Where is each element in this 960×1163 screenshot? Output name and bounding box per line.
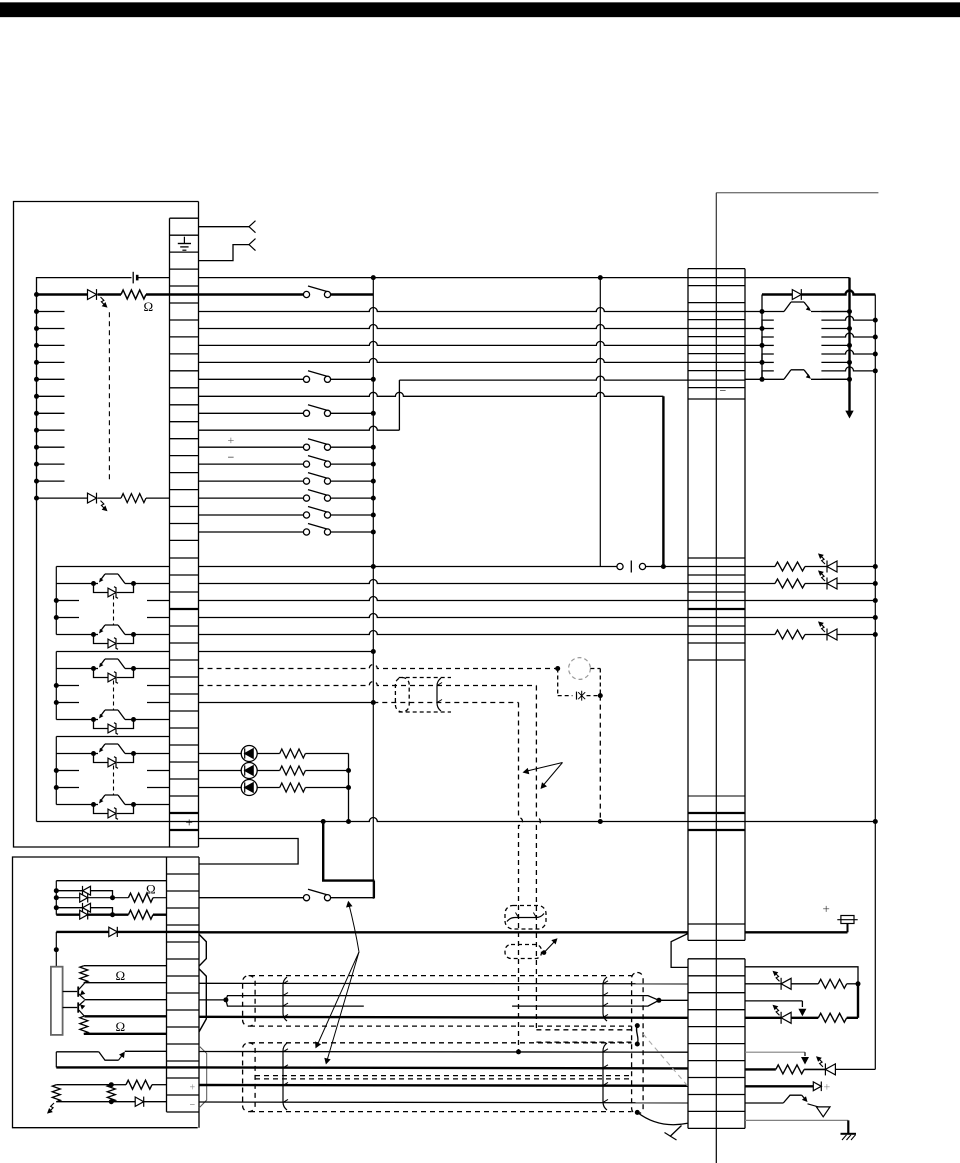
node LED rail 770 [346, 768, 351, 773]
connector CN-A cells [170, 217, 199, 219]
wire: forward diode row 914 [56, 914, 79, 916]
photo resistor LDR1 [52, 1085, 60, 1102]
wire: row 787 strip to LED [199, 787, 242, 789]
key switch SW10 [303, 895, 309, 901]
transistor Q1 (array) [762, 311, 784, 313]
transistor Q10 [94, 583, 99, 585]
wire: array collector row k5 right [821, 311, 849, 313]
wire: block1 mid1 stubs [56, 600, 79, 602]
cable envelope E1 [243, 976, 256, 1027]
cable envelope E3 bottom [250, 1111, 632, 1113]
zener Q14 branch [94, 754, 109, 763]
dashed drop V518 [519, 703, 523, 1052]
shield dashed diagonal [643, 1034, 688, 1086]
wire: row 617 strip to right connector [199, 614, 689, 618]
wire: diode to resistor 914 [88, 914, 129, 916]
wire: array top thick with diode left [762, 293, 792, 295]
wire: diode to resistor [98, 293, 122, 295]
node Q13 right [131, 717, 136, 722]
lamp L1 [576, 692, 578, 700]
wire: row k12 strip to V399 [199, 426, 400, 430]
node Q12 right [131, 666, 136, 671]
wire: block3 top row [56, 736, 169, 738]
wire: resistor to rail [305, 770, 348, 772]
bus: box2 rail 931-966 [55, 932, 57, 967]
switch SW5 [303, 461, 309, 467]
wire: SW7 to bus node [331, 497, 374, 499]
connector CN-C cells [167, 856, 200, 858]
wire: pushbutton to V663 node [646, 566, 688, 568]
wire: array offset row right k7 [821, 350, 875, 354]
wire: Q12 to strip [134, 668, 170, 670]
cable squiggle E1 right [603, 977, 607, 1021]
wire: array collector row k9 right [821, 378, 849, 380]
dashed opto link block3 [113, 766, 115, 795]
wire: reverse diode row 890 [56, 890, 82, 892]
zener Q15 branch [94, 805, 109, 814]
arrow: emitter rail to ground [845, 411, 853, 419]
wire: row 617 to right rail [745, 617, 875, 619]
wire: row k3 strip to right connector [199, 277, 689, 279]
wire: Q11 to strip [134, 634, 170, 636]
wire: array row k6 stub [762, 328, 774, 330]
wire: row k16 strip to switch [199, 497, 304, 499]
wire: row 1067 thick [56, 1066, 166, 1068]
resistor R11 (vertical) [80, 966, 88, 983]
switch SW3 [303, 410, 309, 416]
wire: Q13 bus to emitter [56, 719, 93, 721]
node collector k7 [847, 343, 852, 348]
arrow: plug link 2 [801, 1057, 809, 1065]
node Q15 left [91, 802, 96, 807]
wire: row k7 strip to right connector [199, 341, 689, 345]
resistor R9 [128, 893, 153, 902]
wire: D15 to R15 [791, 1017, 818, 1019]
connector CN-R1 cells [688, 268, 745, 270]
wire: SW4 to bus node [331, 446, 374, 448]
wire: row 753 strip to LED [199, 753, 242, 755]
wire: row 1103 C to D [199, 1101, 688, 1104]
wire: row 600 strip to right connector [199, 597, 689, 601]
wire: array collector row k6 right [821, 328, 849, 330]
resistor R5 [745, 634, 775, 636]
resistor R2 [121, 494, 146, 503]
wire: row k17 strip to switch [199, 514, 304, 516]
diode D11 [80, 910, 88, 919]
transistor Q14 [94, 753, 99, 755]
wire: block3 mid2 stubs [56, 787, 79, 789]
shield arrow (cable pair) [542, 950, 547, 955]
wire: R14 to node [847, 983, 858, 985]
resistor R14 [818, 979, 846, 988]
diode D12 [109, 927, 118, 936]
wire: row k6 through right strip [688, 328, 745, 330]
cable squiggle E23 right [603, 1043, 607, 1110]
wire: block2 mid2 stubs [56, 702, 79, 704]
wire: row 1085 with resistor [56, 1084, 111, 1086]
wire: gray row 1052 to arrow [745, 1051, 805, 1053]
cable marker stadium (mid) [395, 678, 409, 713]
wire: row k4 strip to switch [199, 293, 304, 295]
wire: net k9b from corner to right connector [399, 376, 688, 380]
wire: Q15 to strip [134, 804, 170, 806]
resistor R16 [776, 1065, 804, 1074]
dashed wire: row 685 [199, 682, 537, 686]
shield drain tail [670, 1126, 682, 1137]
node SW4-bus [371, 445, 376, 450]
bus: array left rail [761, 295, 763, 380]
shield stadium (right) [632, 973, 644, 1115]
wire: battery to strip [139, 277, 170, 279]
cable envelope E3 top [255, 1078, 632, 1080]
node row821 thick-tap [321, 819, 326, 824]
svg-text:−: − [228, 450, 235, 464]
node Q14 right [131, 751, 136, 756]
node row702-bus [371, 700, 376, 705]
node SW3-bus [371, 411, 376, 416]
cable envelope E2/E3 left cap [243, 1043, 256, 1112]
node row566-middlebus [371, 564, 376, 569]
wire: block3 mid1 stubs [56, 770, 79, 772]
connector CN-R2 rails [687, 959, 689, 1129]
LED D5 [805, 583, 827, 585]
wire: row 1033 to strip (thick) [84, 1033, 167, 1035]
node Q13 left [91, 717, 96, 722]
leader arrows to shield wires [527, 763, 563, 772]
wire: array offset stub k7 [762, 337, 774, 345]
node pair split [223, 997, 228, 1002]
wire: block1 top row [56, 566, 169, 568]
wire: forward diode row 897 [56, 897, 79, 899]
arrow: plug link [798, 1009, 806, 1017]
resistor R3 [745, 566, 775, 568]
wire: row k15 strip to switch [199, 480, 304, 482]
wire: SW6 to bus node [331, 480, 374, 482]
connector CN-B cells [170, 557, 199, 559]
wire: row 932 thick long [56, 931, 199, 933]
node collector k9 [847, 377, 852, 382]
wire: row k5 through right strip [688, 311, 745, 313]
wire: row 1085 C to D (thick) [199, 1084, 688, 1087]
node row583 right rail [873, 581, 878, 586]
connector bracket 3 [199, 1046, 207, 1108]
bus: block2 left rail [55, 652, 57, 720]
resistor R8 [280, 783, 306, 792]
LED D15 light arrows [775, 1007, 779, 1015]
node on row k3 at bus600 [598, 275, 603, 280]
node diode pair 1a [54, 888, 59, 893]
wire: row 566 through right strip [688, 566, 745, 568]
svg-text:+: + [823, 901, 830, 916]
transistor Q2 (array) [762, 378, 784, 380]
shield drain curve [637, 1112, 687, 1124]
wire: array offset row right k8 [821, 367, 875, 371]
wire: D row1086 thick [745, 1085, 813, 1087]
node SW8-bus [371, 513, 376, 518]
node shield a [635, 1023, 640, 1028]
bus: left sensor common (box1) [36, 295, 38, 822]
node row651-bus [371, 649, 376, 654]
LED D1 light arrows [101, 297, 105, 305]
wire: Q18 input elbow [56, 1051, 99, 1053]
resistor R10 [128, 910, 153, 919]
wire: row 583 strip to right connector [199, 580, 689, 584]
wire: R15 to node (thick) [847, 1017, 858, 1019]
node SW2-bus [371, 377, 376, 382]
dashed wire: lamp row [558, 695, 573, 697]
wire: Q15 bus to emitter [56, 804, 93, 806]
svg-text:+: + [228, 433, 235, 447]
wire: array input row k7 [745, 344, 762, 346]
transistor Q15 [94, 804, 99, 806]
connector bracket 2 [199, 969, 206, 1032]
switch SW9 [303, 529, 309, 535]
wire: Q14 bus to emitter [56, 753, 93, 755]
svg-text:Ω: Ω [116, 968, 126, 983]
wire: resistor to strip 897 [153, 897, 167, 899]
dashed wire: row 668 [199, 665, 558, 669]
cable marker squiggle [437, 678, 441, 711]
node array-in k8 [760, 360, 765, 365]
svg-text:−: − [720, 384, 727, 398]
cable envelope E2 top [250, 1042, 632, 1044]
battery B1 [132, 272, 134, 284]
wire: Q18 to strip [125, 1050, 167, 1052]
zener Q12 branch [94, 669, 109, 678]
dashed link (sensor group) [108, 312, 110, 481]
cable envelope E2 bottom [255, 1075, 632, 1077]
box: left control unit outline [14, 202, 199, 848]
node shield-row821 [598, 819, 603, 824]
node offset k8 on right rail [873, 368, 878, 373]
wire: battery row k3 left [37, 278, 132, 295]
wire: resistor to strip 914 [153, 914, 167, 916]
LED D6 [805, 634, 827, 636]
wire: pin3 to open connector [199, 245, 250, 261]
LED D14 light arrows [775, 973, 779, 981]
wire: pair to strip D [659, 999, 688, 1001]
node lamp circuit left [555, 666, 560, 671]
wire: row 600 to right rail [745, 600, 875, 602]
transistor Q17 [63, 1007, 78, 1009]
wire: Q14 to strip [134, 753, 170, 755]
wire: LED to resistor [257, 753, 280, 755]
zener Q10 branch [94, 584, 109, 593]
wire: array input row k9 [745, 378, 762, 380]
wire: row 770 strip to LED [199, 770, 242, 772]
bus: right rail 875 [874, 295, 876, 1070]
wire: block2 mid1 stubs [56, 685, 79, 687]
node Q10 left [91, 581, 96, 586]
node array-in k7 [760, 343, 765, 348]
wire: thick vertical V663 [662, 396, 664, 566]
node diode pair 2a [54, 905, 59, 910]
zener Q11 branch [94, 635, 109, 644]
chassis triangle [816, 1107, 830, 1117]
zener Q13 branch [94, 720, 109, 729]
wire: row 821 strip to right rail [199, 818, 876, 822]
svg-text:+: + [824, 1080, 831, 1094]
node block2 mid2 [54, 700, 59, 705]
LED D4 [805, 566, 827, 568]
dashed shield drop at 600 [599, 696, 601, 822]
resistor R13 (vertical) [107, 1085, 115, 1102]
node SW5-bus [371, 462, 376, 467]
cable squiggle E1 left [283, 977, 287, 1021]
box: bottom-left unit outline [13, 857, 198, 1128]
diode D17 [813, 1082, 821, 1091]
cable marker stadium v2 [505, 945, 542, 959]
wire: array input row k6 [745, 328, 762, 330]
wire: row 999 to strip [85, 999, 167, 1001]
wire: pair lower [226, 1000, 364, 1006]
wire: vertical link V399 [398, 380, 400, 430]
wire: array offset stub k6 [762, 320, 774, 328]
dashed opto link block1 [113, 596, 115, 625]
wire: array top thick to right corner [801, 291, 875, 295]
node divider bottom [109, 1099, 114, 1104]
bus: box2 left rail upper [55, 881, 57, 915]
node V518 to signal row [516, 1049, 521, 1054]
svg-text:−: − [190, 1100, 196, 1111]
node Q11 right [131, 632, 136, 637]
wire: array row k8 stub [762, 361, 774, 363]
open connector contact 2 [249, 239, 256, 251]
wire: row 634 through right strip [688, 634, 745, 636]
wire: LED row k16 bus to diode [37, 497, 88, 499]
connector CN-R1 middle line [715, 269, 717, 1163]
wire: resistor to strip (thick) [146, 293, 170, 295]
wire: box2 top row [56, 880, 166, 882]
wire: arrow link row1001 [745, 1000, 802, 1002]
LED D14 [745, 983, 781, 985]
dashed lamp loop left [557, 669, 559, 696]
wire: row 702 strip to bus node [199, 702, 374, 704]
bus600: vertical net [599, 278, 601, 567]
wire: row k8 strip to right connector [199, 358, 689, 362]
cable squiggle E23 left [283, 1043, 287, 1110]
wire: Q19 to chassis [808, 1104, 819, 1107]
cable marker dashed top [399, 677, 451, 679]
node block1 mid1 [54, 598, 59, 603]
wire: row 1068 C to D (thick) [199, 1067, 688, 1068]
LED D16 [825, 1064, 835, 1075]
resistor R12 (vertical) [80, 1016, 88, 1034]
wire: D16 to right rail [835, 1068, 875, 1070]
resistor R4 [745, 583, 775, 585]
wire: SW9 to bus node [331, 531, 374, 533]
wire: pin1 to open connector [199, 226, 250, 228]
node diode row 897 on rail [54, 895, 59, 900]
transistor Q12 [94, 668, 99, 670]
wire: array offset row right k6 [821, 333, 875, 337]
wire: row 634 strip to right connector [199, 631, 689, 635]
bus: Q18 link [55, 1052, 57, 1068]
dashed opto link block2 [113, 681, 115, 710]
wire: array collector row k8 right [821, 361, 849, 363]
wire: row k10 strip to corner [199, 392, 664, 396]
node SW7-bus [371, 496, 376, 501]
diode D10 [80, 893, 88, 902]
LED D15 [745, 1017, 781, 1019]
svg-text:+: + [190, 1083, 196, 1094]
resistor R15 [818, 1013, 846, 1022]
wire: row k3 through right strip [688, 277, 745, 279]
wire: block1 mid2 stubs [56, 617, 79, 619]
indicator lamp (dashed circle) [569, 658, 591, 680]
wire: R2 to strip [146, 497, 170, 499]
wire: Q12 bus to emitter [56, 668, 93, 670]
wire: bus to key switch [331, 881, 375, 898]
sensor block (potentiometer) [51, 967, 63, 1035]
switch SW1 [303, 291, 309, 297]
sensor stub wires [37, 311, 65, 313]
svg-text:Ω: Ω [116, 1019, 126, 1034]
wire: SW2 to bus node [331, 378, 374, 380]
wire: row 821 bus to strip [37, 821, 170, 823]
node collector k6 [847, 326, 852, 331]
wire: row 966 to strip [84, 965, 167, 967]
wire: row k8 through right strip [688, 361, 745, 363]
wire: row 566 strip to pushbutton [199, 566, 618, 568]
node Q15 right [131, 802, 136, 807]
transistor Q18 [99, 1052, 119, 1060]
wire: R16 to LED [804, 1068, 825, 1070]
node array-in k5 [760, 309, 765, 314]
connector CN-R1 rails [687, 269, 689, 941]
resistor R6 [280, 749, 306, 758]
wire: row k18 strip to switch [199, 531, 304, 533]
transistor Q13 [94, 719, 99, 721]
transistor Q16 [63, 991, 78, 993]
resistor R7 [280, 766, 306, 775]
wire: LED to resistor [257, 770, 280, 772]
node shield c [635, 1110, 640, 1115]
LED D6 light arrows [821, 624, 825, 632]
node SW6-bus [371, 479, 376, 484]
bus: thick emitter rail 849 [848, 278, 850, 411]
LED D4 light arrows [821, 556, 825, 564]
wire: row k11 strip to switch [199, 412, 304, 414]
transistor Q19 [783, 1095, 801, 1103]
connector strip CN-A/CN-B rails [169, 218, 171, 847]
wire: resistor to rail [305, 753, 348, 755]
node on row k3 at middle bus [371, 275, 376, 280]
node shield b [635, 1042, 640, 1047]
node diode pair 2b [110, 912, 115, 917]
node offset k5 on right rail [873, 318, 878, 323]
wire: array offset stub k9 [762, 371, 774, 379]
wire: row 1000 C to pair node [199, 999, 226, 1001]
node collector k5 [847, 309, 852, 314]
thick tap to switch row [323, 822, 374, 881]
wire: D row1069 resistor feed [745, 1068, 776, 1070]
node SW9-bus [371, 530, 376, 535]
node offset k7 on right rail [873, 352, 878, 357]
shield channel dashes [536, 1029, 631, 1031]
LED D2 light arrows [101, 501, 105, 509]
node Q14 left [91, 751, 96, 756]
wire: D row1103 to transistor [745, 1102, 783, 1104]
wire: row 1102 with diode [56, 1101, 135, 1103]
wire: resistor to rail [305, 787, 348, 789]
wire: switch SW1 to bus [331, 293, 374, 295]
LED D5 light arrows [821, 573, 825, 581]
wire: array offset stub k8 [762, 354, 774, 362]
node offset k6 on right rail [873, 335, 878, 340]
wire: row k13 strip to switch [199, 446, 304, 448]
wire: elbow B-to-C [199, 839, 299, 865]
